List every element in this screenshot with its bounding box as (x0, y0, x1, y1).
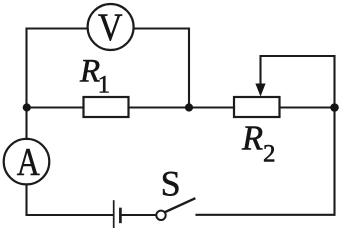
rheostat R2 box (234, 97, 280, 117)
wire battery to switch (122, 214, 156, 216)
svg-text:1: 1 (98, 72, 111, 99)
wire R1 to node B to R2 (129, 106, 235, 108)
wire top-left from left rail to voltmeter (27, 29, 88, 108)
ammeter U-A circle (4, 139, 50, 185)
voltmeter U-V circle (88, 4, 134, 50)
node C junction dot (right rail / wiper loop) (330, 103, 339, 112)
battery short plate (negative) (119, 209, 122, 222)
wire voltmeter to top-right corner down to node B (134, 29, 189, 108)
rheostat wiper arrowhead (255, 84, 265, 97)
wire ammeter to bottom-left corner to battery (27, 185, 114, 216)
svg-text:2: 2 (263, 140, 276, 167)
node A junction dot (left rail / middle wire) (23, 103, 31, 111)
wire R2 to node C (280, 106, 335, 108)
svg-text:S: S (161, 164, 181, 204)
node B junction dot (voltmeter branch / middle wire) (185, 103, 193, 111)
wire left rail above ammeter (25, 108, 27, 140)
svg-text:V: V (98, 6, 123, 49)
switch S lever (165, 199, 194, 212)
resistor R1 box (84, 97, 129, 117)
wire rheostat wiper loop (261, 56, 335, 108)
svg-text:R: R (241, 120, 263, 158)
battery long plate (positive) (113, 201, 115, 228)
svg-text:A: A (17, 141, 40, 184)
wire switch to bottom-right corner up to node C (197, 108, 335, 215)
switch S pivot circle (156, 211, 165, 220)
wire middle left: node A to R1 (27, 106, 84, 108)
